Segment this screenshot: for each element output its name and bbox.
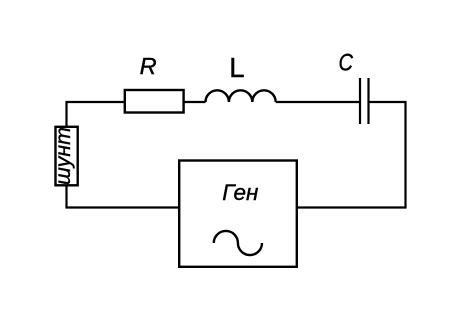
wire left vertical above shunt [65,101,67,126]
wire resistor to inductor [184,101,205,103]
wire bottom right horizontal [297,206,407,208]
wire inductor to capacitor [276,101,359,103]
svg-text:C: C [339,50,354,77]
wire left vertical below shunt [65,186,67,209]
svg-text:Ген: Ген [222,180,258,205]
shunt resistor [56,127,78,186]
svg-text:L: L [229,52,244,83]
sine symbol [214,231,262,255]
svg-text:R: R [140,53,157,79]
inductor L [206,90,276,102]
resistor R [125,90,184,113]
generator box U1 [179,161,297,267]
svg-text:шунт: шунт [51,127,75,185]
wire capacitor to right corner [370,101,407,103]
wire right vertical [404,101,406,209]
wire bottom left horizontal [66,206,181,208]
capacitor C plate right [367,78,369,124]
capacitor C plate left [359,78,361,124]
wire top-left horizontal [66,101,125,103]
